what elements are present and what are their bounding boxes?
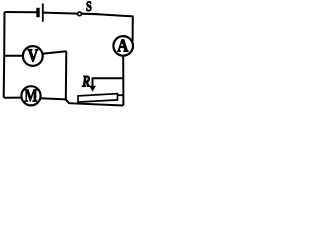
wire voltmeter right stub — [42, 51, 66, 54]
voltmeter V1 circle — [23, 46, 43, 66]
wire left side — [3, 12, 6, 98]
battery B1 negative plate (short thick) — [36, 8, 39, 17]
wire bottom under rheostat — [66, 99, 124, 105]
wire voltmeter left stub — [4, 55, 23, 57]
svg-text:R: R — [81, 73, 90, 91]
wire top-left to battery — [5, 11, 37, 13]
switch S blade — [82, 13, 99, 16]
wire rheostat right terminal stub — [118, 94, 124, 96]
wire bottom-left to motor — [4, 97, 22, 99]
ammeter A1 circle — [113, 36, 133, 56]
wire voltmeter branch vertical — [65, 51, 68, 99]
battery B1 positive plate (long thin) — [42, 4, 44, 22]
svg-text:A: A — [117, 35, 128, 55]
wire motor to junction — [40, 98, 66, 99]
rheostat R slider arrowhead — [89, 86, 96, 92]
wire switch to top-right corner — [98, 14, 133, 41]
rheostat R body box — [78, 94, 118, 102]
rheostat R slider arrow stem — [92, 78, 94, 88]
svg-text:V: V — [28, 45, 39, 66]
motor M1 circle — [21, 86, 40, 105]
svg-text:S: S — [86, 0, 92, 15]
switch S pivot dot — [78, 12, 82, 16]
wire battery to switch — [44, 13, 78, 14]
wire ammeter down right side — [122, 56, 124, 106]
wire slider branch — [93, 77, 124, 79]
svg-text:M: M — [24, 87, 37, 106]
